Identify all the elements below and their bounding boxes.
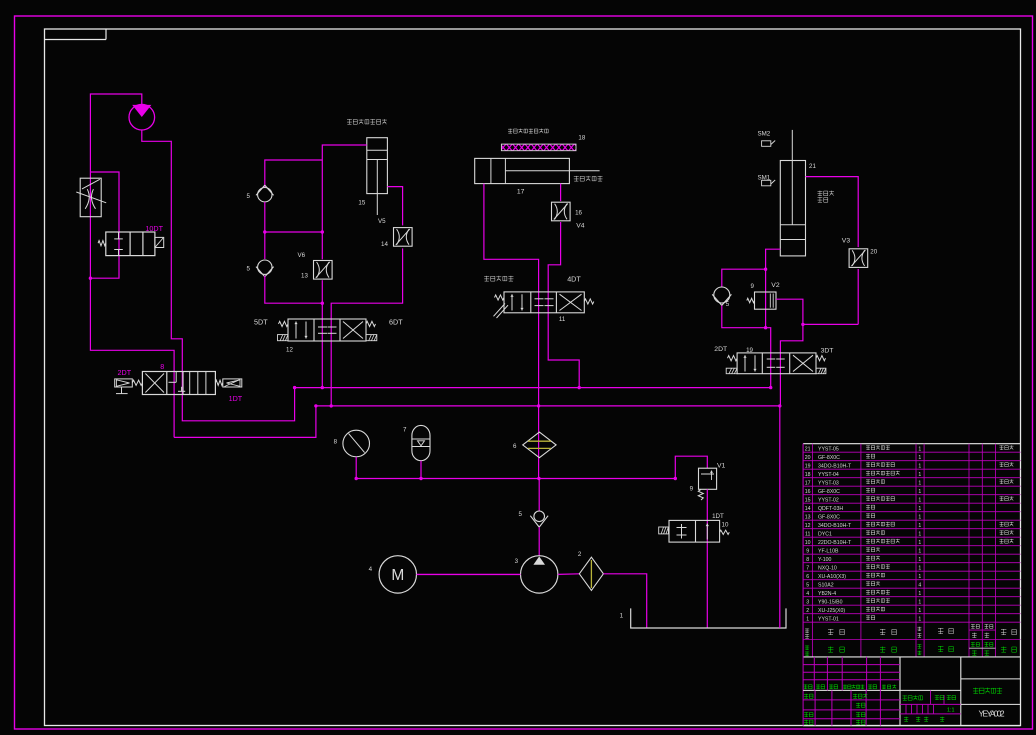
parts list table — [803, 443, 1020, 445]
svg-text:2DT: 2DT — [118, 368, 132, 377]
svg-text:1: 1 — [620, 613, 624, 620]
wire cyl21 left port — [766, 249, 781, 269]
svg-text:YB2N-4: YB2N-4 — [818, 591, 836, 597]
wire throttle13 to valve 12 and rail1 — [321, 280, 323, 387]
svg-text:1: 1 — [918, 523, 921, 529]
node junction left wire — [89, 277, 92, 280]
wire check valve 5 branch — [722, 269, 766, 287]
svg-text:V5: V5 — [378, 218, 386, 225]
motor shaft — [417, 573, 521, 575]
wire V2 to valve19 A (jog) — [766, 328, 771, 388]
suction filter 2 (diamond) — [579, 557, 603, 590]
svg-text:2: 2 — [578, 551, 582, 558]
wire V3 down — [857, 269, 859, 324]
svg-text:1: 1 — [918, 565, 921, 571]
svg-text:YEYA002: YEYA002 — [979, 710, 1005, 719]
svg-text:YYST-01: YYST-01 — [818, 616, 839, 622]
svg-text:1: 1 — [918, 574, 921, 580]
wire — [722, 306, 766, 328]
svg-text:1: 1 — [806, 616, 809, 622]
flow control valve (adjustable restrictor) — [80, 178, 101, 217]
throttle valve 14 (V5) — [394, 228, 413, 247]
svg-text:9: 9 — [751, 283, 755, 290]
svg-text:12: 12 — [286, 347, 293, 354]
svg-text:16: 16 — [575, 209, 582, 216]
valve 8 left pilot box (2DT solenoid) — [115, 379, 133, 387]
svg-text:22DO-B10H-T: 22DO-B10H-T — [818, 540, 852, 546]
wire cyl17 left port to valve11 — [484, 184, 539, 479]
svg-text:GF-8X0C: GF-8X0C — [818, 455, 840, 461]
label text cyl21 — [818, 190, 823, 192]
svg-text:10: 10 — [722, 522, 729, 529]
servo valve 11 body — [504, 292, 584, 313]
valve 12 hatched end pads — [278, 335, 289, 341]
svg-text:1:1: 1:1 — [947, 708, 955, 714]
solenoid valve 10DT — [106, 232, 155, 256]
cylinder 15 (actuator) — [367, 138, 388, 194]
svg-text:9: 9 — [690, 485, 694, 492]
svg-text:10: 10 — [805, 540, 811, 546]
valve 19 body (3-position 4-way) — [737, 353, 816, 374]
svg-text:5: 5 — [247, 266, 251, 273]
svg-text:15: 15 — [358, 200, 365, 207]
node below V2 — [764, 326, 767, 329]
pump P1 (hand pump, magenta) — [129, 104, 155, 130]
svg-text:QDFT-03H: QDFT-03H — [818, 506, 843, 512]
valve 8 right pilot box (1DT solenoid) — [223, 379, 242, 387]
throttle valve 20 (V3) — [849, 249, 868, 268]
svg-text:21: 21 — [809, 163, 816, 170]
table header row (white) — [805, 628, 809, 630]
svg-text:V1: V1 — [717, 463, 726, 470]
svg-text:17: 17 — [517, 189, 525, 196]
title block middle grid — [900, 689, 961, 691]
rail line T (upper) — [295, 387, 771, 389]
wire valve8 left port to rail2 — [174, 406, 316, 438]
svg-text:V4: V4 — [576, 223, 585, 230]
svg-text:21: 21 — [805, 446, 811, 452]
svg-text:18: 18 — [805, 472, 811, 478]
svg-text:34DO-B10H-T: 34DO-B10H-T — [818, 463, 852, 469]
svg-text:NXQ-10: NXQ-10 — [818, 565, 837, 571]
svg-text:1: 1 — [918, 540, 921, 546]
svg-text:1: 1 — [918, 480, 921, 486]
svg-text:V6: V6 — [298, 252, 306, 259]
svg-text:5: 5 — [247, 193, 251, 200]
svg-text:XU-A10(X3): XU-A10(X3) — [818, 574, 846, 580]
svg-text:1: 1 — [918, 591, 921, 597]
svg-text:GF-8X0C: GF-8X0C — [818, 489, 840, 495]
svg-text:15: 15 — [805, 497, 811, 503]
svg-text:14: 14 — [805, 506, 811, 512]
wire — [265, 276, 323, 304]
wire pump loop — [90, 94, 174, 437]
svg-text:4: 4 — [369, 566, 373, 573]
svg-text:12: 12 — [805, 523, 811, 529]
svg-text:19: 19 — [805, 463, 811, 469]
pilot operated check V2 (9) — [765, 269, 767, 328]
svg-text:V3: V3 — [842, 238, 851, 245]
svg-text:7: 7 — [403, 426, 407, 433]
svg-text:14: 14 — [381, 241, 388, 248]
label servo valve text — [484, 275, 489, 277]
title block revision row green text — [804, 684, 808, 686]
throttle valve 13 (V6) — [314, 261, 333, 280]
table header row (green) — [805, 645, 809, 647]
node — [321, 302, 324, 305]
svg-text:13: 13 — [805, 514, 811, 520]
check valve 5 upper — [258, 188, 272, 202]
svg-text:6: 6 — [513, 443, 517, 450]
throttle valve 16 (V4) — [552, 202, 571, 221]
svg-text:1: 1 — [918, 446, 921, 452]
svg-text:YYST-05: YYST-05 — [818, 446, 839, 452]
svg-text:SM2: SM2 — [758, 130, 771, 137]
wire V1 to valve 10 and tank — [706, 489, 708, 628]
electric motor 4 — [379, 556, 416, 593]
accumulator 7 — [412, 425, 430, 460]
svg-text:1: 1 — [918, 616, 921, 622]
svg-text:DYC1: DYC1 — [818, 531, 832, 537]
svg-text:M: M — [391, 567, 404, 584]
wire pump outlet to valve 8 — [142, 130, 295, 421]
svg-text:1: 1 — [918, 557, 921, 563]
wire V2 right output — [776, 299, 803, 324]
node — [263, 230, 266, 233]
pressure gauge 8 — [343, 430, 370, 457]
valve 19 hatched pads — [726, 368, 737, 374]
svg-text:YYST-03: YYST-03 — [818, 480, 839, 486]
svg-text:1: 1 — [918, 531, 921, 537]
tank 1 — [631, 608, 786, 628]
svg-text:1DT: 1DT — [712, 513, 724, 520]
svg-text:34DO-B10H-T: 34DO-B10H-T — [818, 523, 852, 529]
label text right of cylinder 17 — [574, 176, 579, 178]
svg-text:18: 18 — [578, 135, 585, 142]
svg-text:8: 8 — [160, 362, 164, 371]
border tab top-left — [45, 39, 107, 41]
return line right — [779, 406, 781, 628]
node — [321, 230, 324, 233]
svg-text:1: 1 — [918, 489, 921, 495]
title block right grid — [961, 678, 1021, 680]
title block left grid — [803, 664, 900, 666]
svg-text:8: 8 — [806, 557, 809, 563]
svg-text:1: 1 — [918, 472, 921, 478]
svg-text:11: 11 — [559, 316, 566, 323]
wire cyl17 right port to throttle16 — [560, 184, 562, 202]
rail nodes — [293, 386, 296, 389]
svg-text:16: 16 — [805, 489, 811, 495]
wire branch to solenoid valve 10DT — [90, 172, 119, 278]
svg-text:4: 4 — [918, 582, 921, 588]
svg-text:1: 1 — [918, 506, 921, 512]
pump 3 — [521, 556, 558, 593]
stage mark green text — [903, 695, 908, 697]
svg-text:4DT: 4DT — [567, 274, 581, 283]
svg-text:1: 1 — [918, 548, 921, 554]
svg-text:5DT: 5DT — [254, 318, 268, 327]
svg-text:1: 1 — [918, 463, 921, 469]
wire cross link — [265, 231, 323, 233]
svg-text:YYST-04: YYST-04 — [818, 472, 839, 478]
svg-text:1: 1 — [918, 608, 921, 614]
svg-text:1: 1 — [918, 455, 921, 461]
valve 12 body (3-position 4-way) — [288, 319, 366, 341]
svg-text:1: 1 — [918, 599, 921, 605]
relief valve V1 (9) — [675, 456, 707, 478]
svg-text:10DT: 10DT — [145, 224, 163, 233]
svg-text:9: 9 — [806, 548, 809, 554]
svg-text:V2: V2 — [771, 282, 780, 289]
label text above cylinder 15 — [347, 119, 352, 121]
wire check valve branch top — [265, 160, 323, 187]
svg-text:3: 3 — [806, 599, 809, 605]
wire pump outlet right — [558, 573, 579, 576]
wire cyl15 right port through throttle 14 — [387, 187, 402, 226]
servo pilot arrows — [494, 304, 506, 317]
svg-text:1: 1 — [918, 497, 921, 503]
label text above sensor — [508, 128, 512, 130]
wire cyl21 right port to throttle V3 — [806, 177, 859, 248]
svg-text:6: 6 — [806, 574, 809, 580]
check valve 5 (pump line) — [538, 479, 540, 512]
svg-text:13: 13 — [301, 273, 308, 280]
svg-text:YYST-02: YYST-02 — [818, 497, 839, 503]
svg-text:19: 19 — [746, 347, 753, 354]
svg-text:5: 5 — [726, 301, 730, 308]
title block frame — [803, 656, 1020, 658]
check valve 5 lower — [258, 260, 272, 274]
filter 6 (diamond) — [523, 432, 556, 458]
svg-text:6DT: 6DT — [389, 318, 403, 327]
rail to components — [356, 478, 675, 480]
title block signature green labels — [804, 693, 808, 695]
svg-text:5: 5 — [519, 511, 523, 518]
svg-text:4: 4 — [806, 591, 809, 597]
svg-text:2: 2 — [806, 608, 809, 614]
wire throttle14 down to valve12 — [331, 248, 402, 406]
cylinder 17 (horizontal) — [475, 158, 570, 183]
rail line P (lower) — [316, 405, 780, 407]
svg-text:2DT: 2DT — [714, 346, 727, 353]
wire node to V3 line — [803, 323, 858, 325]
svg-text:5: 5 — [806, 582, 809, 588]
valve 8 body (2-position 4-way) — [142, 372, 215, 395]
svg-text:Y-100: Y-100 — [818, 557, 831, 563]
wire cyl15 left port — [322, 145, 367, 259]
svg-text:YF-L10B: YF-L10B — [818, 548, 839, 554]
svg-text:S10A2: S10A2 — [818, 582, 834, 588]
svg-text:1: 1 — [918, 514, 921, 520]
svg-text:1DT: 1DT — [229, 394, 243, 403]
wire filter2 to tank — [603, 574, 646, 628]
cylinder 21 (vertical) — [780, 161, 805, 256]
drawing title green — [973, 687, 979, 689]
svg-text:7: 7 — [806, 565, 809, 571]
wire throttle16 to valve11 — [548, 222, 579, 388]
svg-text:17: 17 — [805, 480, 811, 486]
check valve 5 (right) — [714, 287, 730, 303]
svg-text:GF-8X0C: GF-8X0C — [818, 514, 840, 520]
svg-text:3DT: 3DT — [821, 347, 834, 354]
svg-text:3: 3 — [515, 558, 519, 565]
svg-text:Y90-15/B0: Y90-15/B0 — [818, 599, 843, 605]
svg-text:11: 11 — [805, 531, 810, 537]
svg-text:20: 20 — [805, 455, 811, 461]
wire — [264, 202, 266, 259]
svg-text:20: 20 — [870, 249, 877, 256]
unloading valve 10 (1DT) — [669, 520, 720, 542]
svg-text:XU-J25(X0): XU-J25(X0) — [818, 608, 845, 614]
svg-text:8: 8 — [334, 439, 338, 446]
wire node down to valve19 B — [780, 324, 803, 406]
